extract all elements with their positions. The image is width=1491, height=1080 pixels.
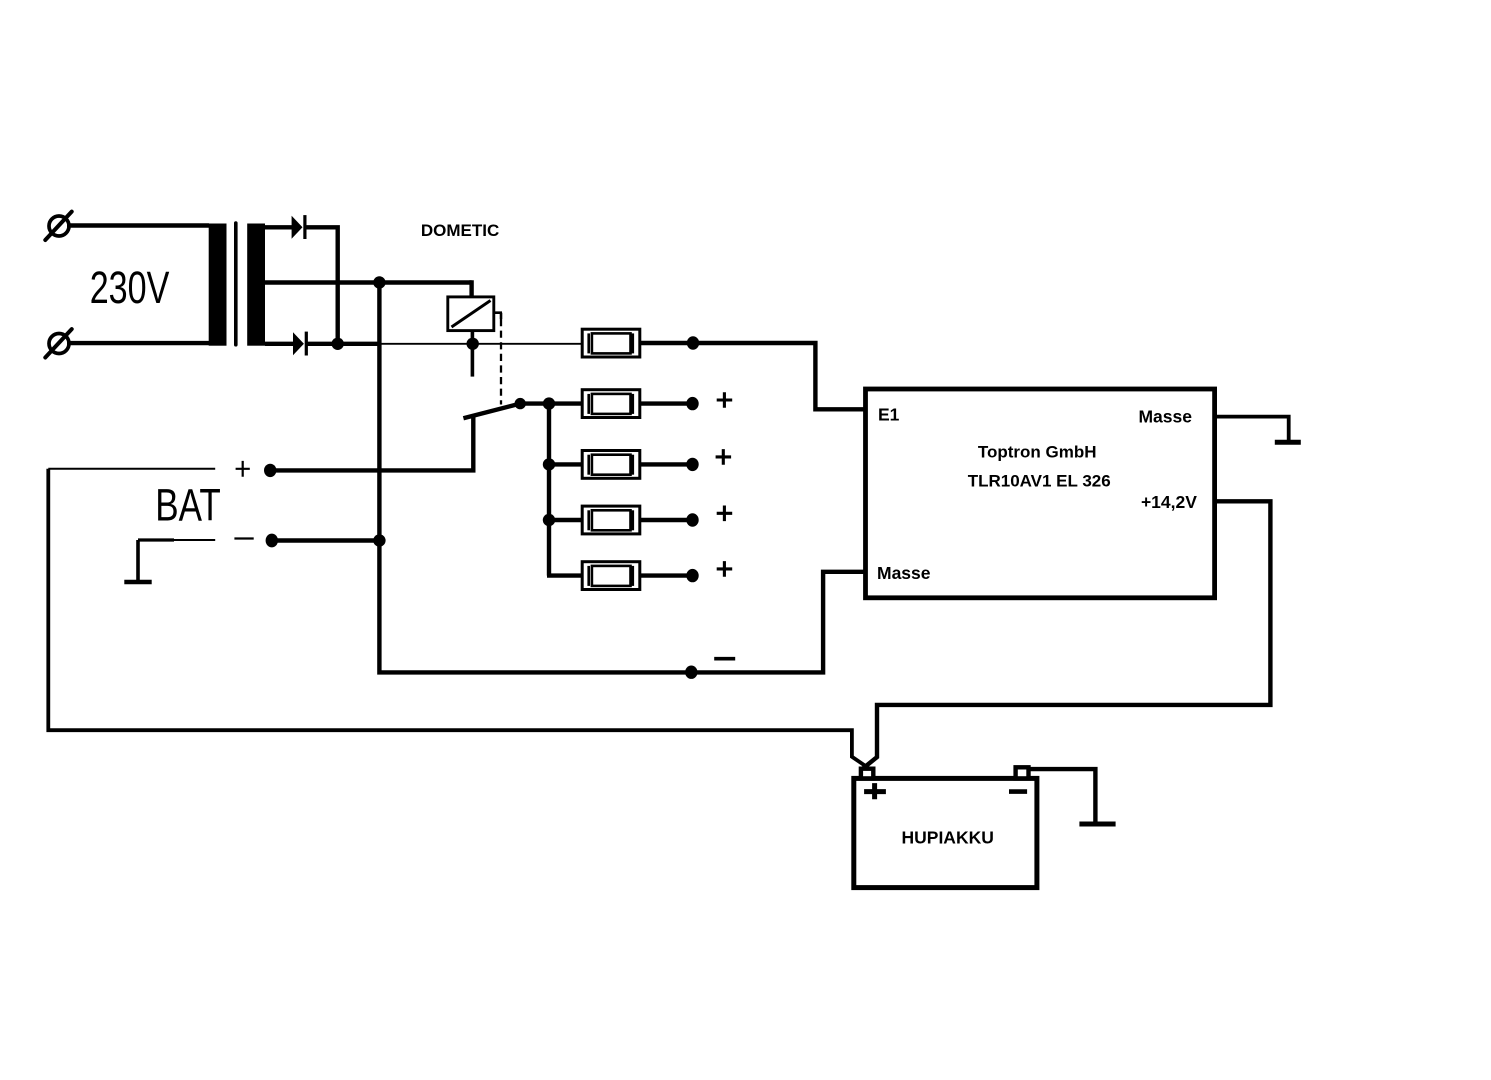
svg-text:Masse: Masse bbox=[877, 563, 931, 583]
label F5 plus bbox=[717, 561, 733, 577]
wire Masse pin to ground bbox=[1215, 417, 1289, 440]
node BAT minus junction bbox=[373, 534, 385, 546]
wire primary bottom bbox=[67, 341, 209, 345]
fuse F2 bbox=[549, 390, 693, 418]
node fuse bus junction F4 bbox=[543, 514, 555, 526]
wire D2 cathode to bus crossing bbox=[307, 342, 380, 346]
wire BAT plus stub (thin) bbox=[48, 468, 215, 470]
ground (Masse) bbox=[1275, 440, 1301, 445]
svg-text:Toptron GmbH: Toptron GmbH bbox=[978, 443, 1097, 462]
battery HUPIAKKU bbox=[854, 778, 1037, 887]
terminal P1 (230V line) bbox=[45, 212, 71, 240]
wire BAT minus stub bbox=[138, 538, 174, 541]
wire rectified line (thin) to fuse F1 bbox=[379, 343, 583, 345]
relay K1 actuator tab bbox=[494, 313, 502, 319]
node F1 output dot bbox=[687, 336, 699, 349]
wire primary top bbox=[67, 223, 209, 227]
ground (BAT) bbox=[124, 540, 151, 582]
wire center-tap bus down and negative return bbox=[379, 283, 865, 673]
wire D1 cathode to corner bbox=[305, 227, 338, 343]
node negative bus dot bbox=[685, 666, 697, 679]
svg-text:HUPIAKKU: HUPIAKKU bbox=[902, 828, 994, 848]
wire switch to fuse bus bbox=[520, 401, 549, 405]
svg-text:230V: 230V bbox=[90, 262, 170, 313]
wire BAT minus to bus bbox=[272, 538, 380, 542]
relay K1 coil bbox=[448, 297, 494, 331]
label battery minus bbox=[1009, 789, 1027, 794]
node switch output junction bbox=[543, 397, 555, 409]
svg-text:+14,2V: +14,2V bbox=[1141, 492, 1197, 512]
relay K1 coil top lead bbox=[469, 283, 471, 297]
label F2 plus bbox=[717, 392, 733, 408]
node F3 output dot bbox=[686, 458, 698, 471]
node BAT minus terminal bbox=[266, 534, 278, 548]
fuse F4 bbox=[549, 506, 693, 534]
wire F1 output bbox=[640, 341, 693, 345]
transformer T1 secondary winding bbox=[247, 224, 265, 346]
wire secondary bottom to D2 bbox=[265, 342, 294, 346]
label BAT minus bbox=[234, 537, 253, 539]
node F5 output dot bbox=[686, 569, 698, 582]
fuse F5 bbox=[547, 562, 693, 590]
svg-text:TLR10AV1 EL 326: TLR10AV1 EL 326 bbox=[968, 471, 1111, 490]
svg-text:BAT: BAT bbox=[155, 479, 221, 531]
node switch pivot bbox=[515, 398, 526, 409]
wire F1 to E1 input bbox=[693, 343, 866, 409]
fuse F3 bbox=[549, 451, 693, 479]
relay K1 dashed actuation link bbox=[500, 319, 502, 405]
relay contact switch blade bbox=[463, 404, 520, 419]
node BAT plus terminal bbox=[264, 464, 276, 477]
wire battery minus to ground bbox=[1029, 769, 1096, 821]
wire fuse distribution bus bbox=[547, 404, 551, 576]
label battery plus bbox=[864, 783, 886, 799]
label F3 plus bbox=[716, 449, 732, 465]
transformer T1 core bbox=[234, 223, 238, 345]
wire BAT+ up to switch bbox=[270, 417, 473, 471]
label F4 plus bbox=[717, 506, 733, 522]
svg-text:DOMETIC: DOMETIC bbox=[421, 221, 499, 240]
label BAT plus bbox=[236, 461, 250, 477]
wire secondary center tap bbox=[265, 280, 472, 284]
relay K1 coil bottom lead bbox=[471, 331, 475, 377]
node D1/D2 junction bbox=[332, 338, 344, 350]
svg-text:Masse: Masse bbox=[1138, 407, 1192, 427]
wire +14,2V to battery plus bbox=[863, 501, 1271, 769]
label negative bus minus bbox=[714, 657, 735, 661]
battery plus post bbox=[861, 769, 873, 779]
node relay coil junction bbox=[467, 338, 479, 350]
wire BAT plus long run to battery bbox=[48, 469, 869, 769]
node F2 output dot bbox=[686, 397, 698, 410]
node fuse bus junction F3 bbox=[543, 458, 555, 470]
charger box U1 Toptron bbox=[866, 389, 1215, 598]
diode D2 bbox=[293, 332, 308, 356]
terminal P2 (230V neutral) bbox=[45, 329, 71, 357]
svg-text:E1: E1 bbox=[878, 405, 900, 425]
battery minus post bbox=[1016, 767, 1029, 778]
wire secondary top to D1 bbox=[265, 225, 293, 229]
node center tap junction bbox=[373, 276, 385, 288]
transformer T1 primary winding bbox=[209, 224, 227, 346]
node F4 output dot bbox=[686, 513, 698, 526]
ground (battery) bbox=[1079, 822, 1115, 827]
fuse F1 bbox=[582, 329, 640, 357]
diode D1 bbox=[292, 215, 307, 239]
